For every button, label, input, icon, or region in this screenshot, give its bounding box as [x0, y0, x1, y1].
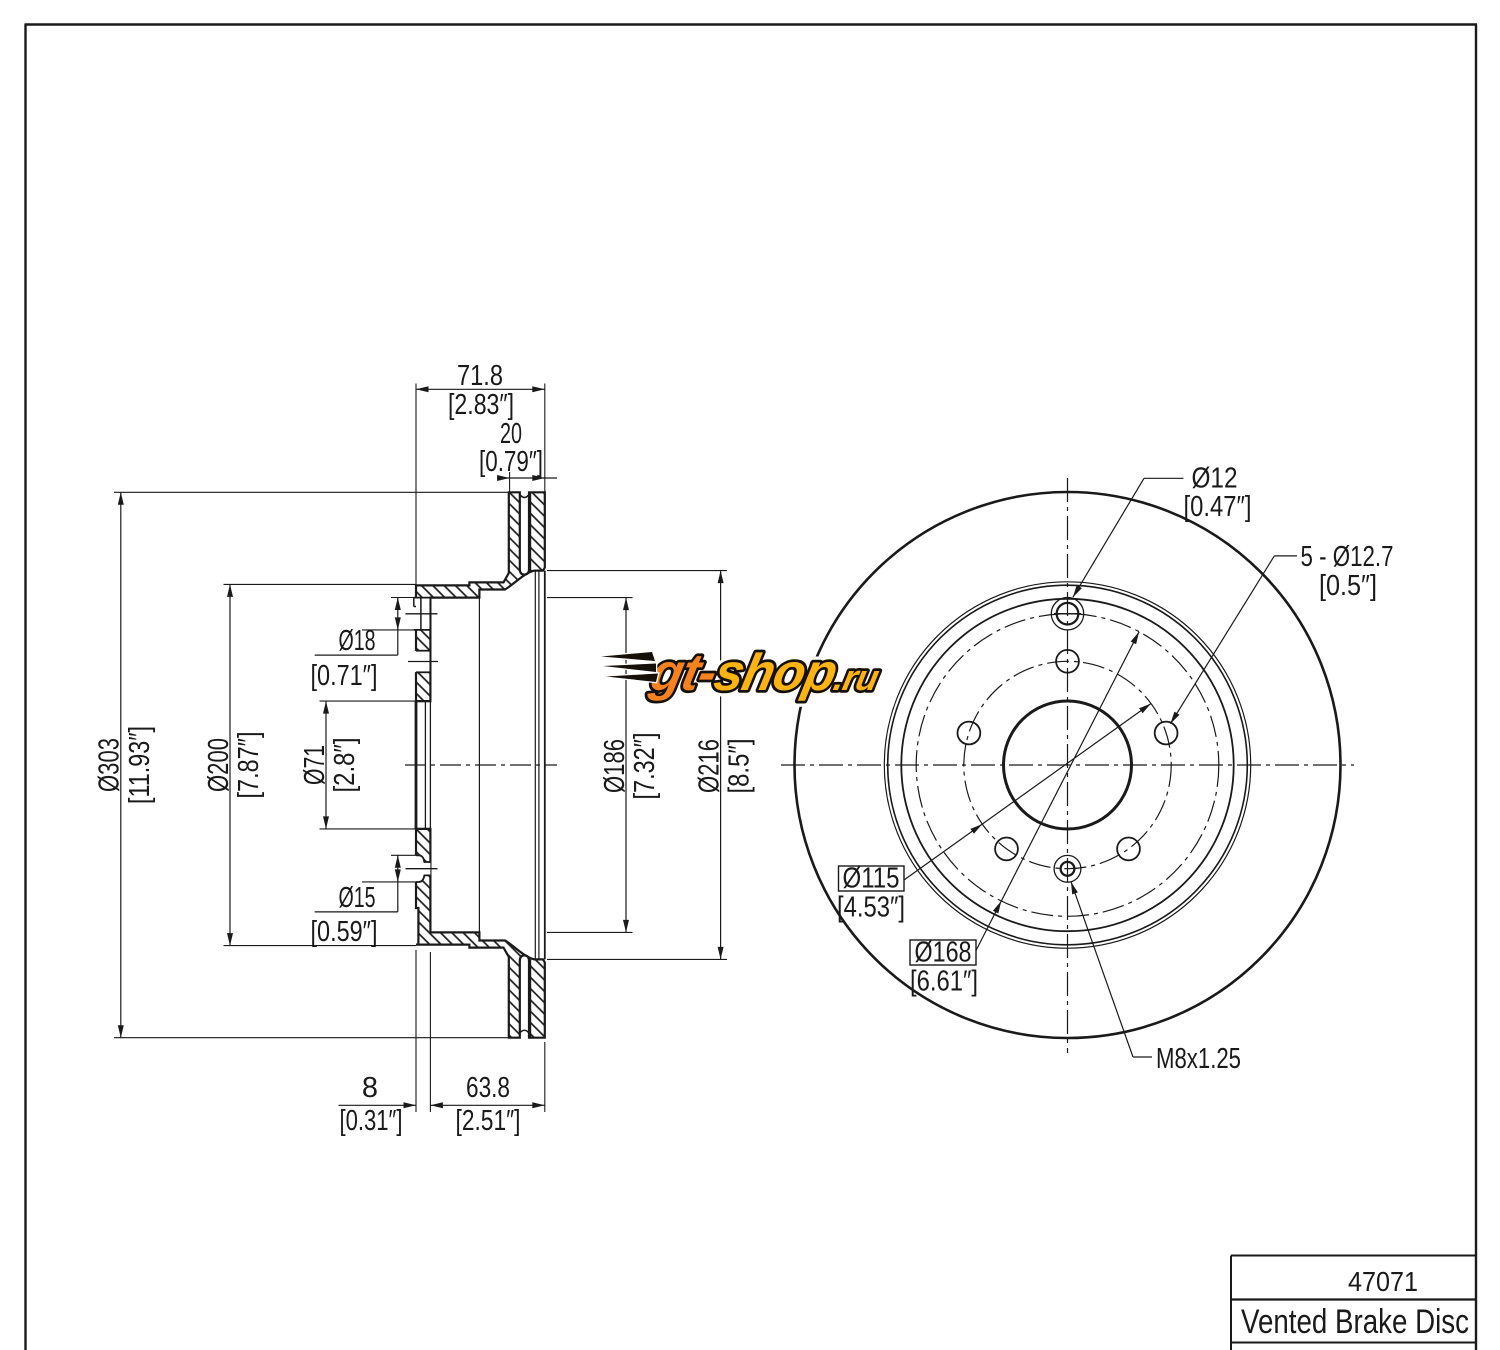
drum outer circle O200: [888, 585, 1248, 945]
svg-text:[0.79″]: [0.79″]: [479, 446, 543, 478]
svg-text:Ø186: Ø186: [599, 739, 631, 793]
wheel stud hole O12.7 #5: [1155, 722, 1178, 745]
dim 20 friction ring width: [497, 477, 557, 479]
svg-text:5 - Ø12.7: 5 - Ø12.7: [1301, 541, 1394, 573]
svg-text:[0.47″]: [0.47″]: [1184, 491, 1252, 523]
leader M8x1.25 thread: [1133, 1056, 1152, 1058]
dim O216 friction ring inner diameter: [720, 571, 722, 960]
svg-text:Ø71: Ø71: [299, 745, 331, 785]
svg-text:[6.61″]: [6.61″]: [910, 966, 978, 998]
svg-text:[2.51″]: [2.51″]: [456, 1105, 521, 1137]
svg-text:[7.87″]: [7.87″]: [233, 732, 265, 799]
dim 63.8 hat depth: [430, 1104, 544, 1106]
dim O15 countersunk hole: [397, 855, 399, 912]
svg-text:Ø200: Ø200: [203, 738, 235, 792]
drum shoulder edge (projected): [478, 598, 480, 933]
dim 8 flange thickness: [339, 1104, 417, 1106]
dim 71.8 overall width: [416, 388, 545, 390]
leader 5-O12.7 stud holes: [1274, 555, 1297, 557]
wheel stud hole O12 in flange (section): [413, 651, 429, 672]
wheel stud hole O12.7 #1: [1056, 650, 1079, 673]
access hole O12 with O18 counterbore (top): [1051, 598, 1083, 630]
drum inner circle O186: [901, 599, 1233, 931]
hub/hat + vented friction ring, section top half (hatched): [416, 492, 545, 701]
service thread hole M8 (bottom): [1054, 855, 1081, 882]
svg-text:Ø168: Ø168: [915, 937, 972, 969]
vane contour in vent slot, top: [520, 495, 529, 498]
O15 hole centerline: [406, 868, 438, 870]
countersunk hole O15 in flange (section): [413, 855, 430, 882]
dim O186 drum inner diameter: [625, 598, 627, 933]
leader O12: [1144, 477, 1184, 479]
svg-text:[2.83″]: [2.83″]: [448, 389, 514, 421]
hub bore edges (O71): [415, 701, 418, 829]
svg-text:Ø216: Ø216: [693, 739, 725, 793]
O12 hole centerline: [408, 661, 438, 663]
disc outer circle O303: [795, 492, 1341, 1038]
stud access hole O18 in flange (section): [413, 598, 429, 630]
svg-text:[0.31″]: [0.31″]: [340, 1105, 403, 1137]
svg-text:[8.5″]: [8.5″]: [724, 739, 756, 794]
svg-text:71.8: 71.8: [457, 360, 503, 392]
svg-text:[0.71″]: [0.71″]: [311, 660, 378, 692]
svg-text:Ø303: Ø303: [94, 738, 126, 792]
friction ring inner face edges (projected): [534, 571, 536, 960]
leader O168 bolt circle: [976, 632, 1139, 951]
svg-text:Ø12: Ø12: [1192, 463, 1238, 495]
vane contour in vent slot, bottom: [520, 1030, 529, 1033]
svg-text:M8x1.25: M8x1.25: [1156, 1043, 1241, 1075]
vertical centerline: [1067, 478, 1069, 1053]
bolt circle O115 (centerline): [964, 661, 1171, 868]
svg-text:[2.8″]: [2.8″]: [329, 738, 361, 793]
watermark speed streaks: [601, 652, 658, 682]
svg-text:[0.59″]: [0.59″]: [311, 916, 378, 948]
svg-text:8: 8: [362, 1072, 378, 1104]
svg-text:Vented Brake Disc: Vented Brake Disc: [1241, 1303, 1469, 1341]
leader O115 bolt circle: [904, 704, 1151, 881]
svg-text:Ø18: Ø18: [339, 625, 376, 657]
dim O18 access hole: [397, 598, 399, 656]
section axis centerline: [405, 764, 557, 766]
border frame: [24, 25, 26, 1350]
bolt circle O168 (centerline): [916, 614, 1219, 917]
svg-text:63.8: 63.8: [466, 1072, 510, 1104]
horizontal centerline: [781, 764, 1354, 766]
drum shoulder circle: [884, 582, 1250, 948]
wheel stud hole O12.7 #2: [958, 722, 981, 745]
svg-text:[11.93″]: [11.93″]: [124, 726, 156, 804]
wheel stud hole O12.7 #4: [1117, 838, 1140, 861]
svg-text:Ø115: Ø115: [843, 863, 900, 895]
title block: [1231, 1255, 1476, 1257]
svg-text:Ø15: Ø15: [339, 882, 376, 914]
svg-text:[0.5″]: [0.5″]: [1319, 570, 1377, 602]
wheel stud hole O12.7 #3: [995, 838, 1018, 861]
svg-text:[4.53″]: [4.53″]: [837, 892, 905, 924]
svg-text:[7.32″]: [7.32″]: [629, 733, 661, 800]
svg-text:47071: 47071: [1348, 1266, 1418, 1297]
dim O71 hub bore: [325, 701, 327, 829]
O18 hole centerline: [406, 613, 438, 615]
section bottom half (hatched): [416, 829, 545, 1038]
hub bore O71: [1004, 701, 1132, 829]
dim O200 drum outer diameter: [229, 584, 231, 945]
dim O303 overall diameter: [120, 492, 122, 1037]
